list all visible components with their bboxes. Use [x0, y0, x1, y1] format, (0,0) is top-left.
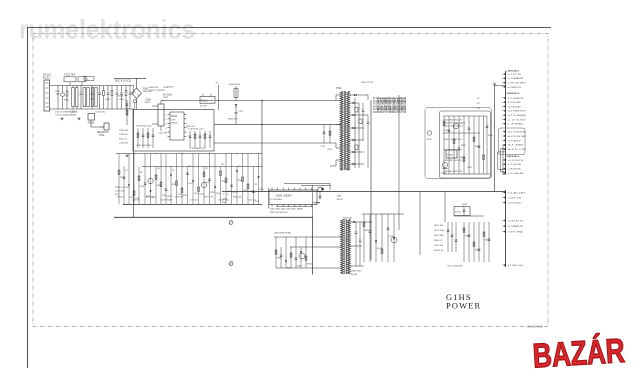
wire under IC801 [276, 205, 313, 207]
svg-text:DG: DG [85, 78, 89, 80]
pin CN604-5 [503, 148, 506, 150]
pin CN603-3 [503, 123, 506, 125]
svg-text:P.P: P.P [477, 108, 481, 110]
svg-text:T601 6174Z: T601 6174Z [361, 82, 373, 84]
optocoupler PC601 [446, 150, 457, 158]
svg-text:R651 10K: R651 10K [434, 225, 444, 227]
capacitor C105 [99, 86, 101, 93]
resistor R102 [103, 86, 105, 91]
svg-text:e-3 5 GND-B: e-3 5 GND-B [508, 202, 522, 204]
bus primary return [114, 216, 313, 218]
posistor TH101 degauss [88, 114, 95, 121]
line filter L101 [72, 88, 75, 107]
pin CN604-2 [503, 135, 506, 137]
resistor R664 [483, 222, 485, 262]
capacitor C650 [447, 222, 449, 252]
electrolytic capacitor C106 [158, 104, 164, 126]
svg-text:IC801 LM2576: IC801 LM2576 [276, 194, 292, 197]
svg-text:R621 39K C621 473: R621 39K C621 473 [444, 120, 463, 122]
svg-text:rumelektronics: rumelektronics [19, 15, 195, 45]
wire primary ground drop [133, 109, 135, 217]
capacitor C623 [458, 116, 460, 174]
capacitor C127 [231, 154, 233, 205]
bridge rectifier D101 diamond [132, 88, 142, 98]
svg-text:CN601 EAY-1: CN601 EAY-1 [507, 70, 521, 73]
wire feedback top [443, 115, 487, 117]
capacitor C629 [486, 116, 488, 174]
svg-text:R652 4.7: R652 4.7 [434, 240, 443, 242]
svg-text:TH101: TH101 [88, 122, 96, 124]
connector CN601 spine [505, 71, 507, 175]
svg-text:ZD102: ZD102 [167, 196, 173, 198]
svg-text:F101 T4A: F101 T4A [65, 74, 76, 77]
pin CN601-2 [503, 77, 506, 79]
feedback group box outer [425, 108, 492, 179]
ground AC earth [61, 117, 63, 118]
capacitor C665 [488, 222, 490, 262]
svg-text:D106: D106 [140, 186, 145, 188]
svg-text:R137 4.7K: R137 4.7K [204, 197, 214, 199]
svg-text:L104 DGC: L104 DGC [95, 112, 106, 114]
resistor R611 [363, 214, 365, 262]
resistor C124 [176, 154, 178, 205]
capacitor C110 [129, 86, 131, 93]
wire standby aux [301, 184, 331, 186]
capacitor R123 [144, 154, 146, 205]
svg-text:C123: C123 [162, 195, 167, 197]
pin CN702-2 [503, 225, 506, 227]
svg-text:ZD651 9V: ZD651 9V [434, 250, 444, 252]
svg-text:f-3 P-GND: f-3 P-GND [508, 231, 524, 233]
svg-text:d-3 GND-P: d-3 GND-P [508, 140, 522, 142]
svg-text:C111: C111 [239, 111, 245, 113]
resistor R642 [381, 214, 383, 262]
svg-text:275: 275 [254, 184, 257, 186]
svg-text:d-2 3.3V-SB: d-2 3.3V-SB [508, 136, 527, 138]
svg-text:R136 10K: R136 10K [175, 197, 184, 199]
capacitor C602 [367, 121, 370, 123]
bus secondary ground [222, 191, 506, 193]
svg-text:T801: T801 [337, 196, 343, 198]
pin CN605-1 [503, 159, 506, 161]
pin CN701-2 [503, 197, 506, 199]
svg-text:e-1 P-ON 2.5V: e-1 P-ON 2.5V [508, 160, 524, 162]
diode D109 [258, 154, 260, 205]
transformer T801 secondary winding [347, 219, 350, 274]
ground symbol standby 1 [229, 221, 233, 225]
vertical stub IC801 left [268, 188, 270, 209]
BAZAR logo [532, 332, 626, 376]
svg-text:C107: C107 [105, 99, 111, 101]
diode D603 [350, 114, 368, 116]
wire bridge feed [136, 78, 138, 88]
svg-text:R626 1.2K C625 47u: R626 1.2K C625 47u [444, 139, 463, 141]
svg-text:DGC 9-10 COIL: DGC 9-10 COIL [115, 81, 132, 83]
IC101 power hybrid box [133, 110, 214, 152]
wire feedback mid [443, 132, 480, 134]
capacitor C107 [107, 86, 109, 93]
svg-text:Q602 KSC945 R627: Q602 KSC945 R627 [444, 150, 463, 152]
ground IC left [126, 154, 128, 155]
tab circle P601 [427, 131, 431, 135]
svg-text:b-1 24VNOR: b-1 24VNOR [508, 98, 524, 100]
svg-text:R116 56K: R116 56K [119, 130, 129, 132]
wire rail primary lower [123, 203, 262, 205]
pin CN701-3 [503, 202, 506, 204]
svg-text:C652 104: C652 104 [434, 245, 444, 247]
vertical connector feed bus [494, 84, 496, 192]
svg-text:D109: D109 [259, 189, 264, 191]
svg-text:C807 R806 ZD801: C807 R806 ZD801 [274, 233, 292, 235]
pin CN601-3 [503, 82, 506, 84]
svg-text:AC IN: AC IN [43, 76, 50, 79]
sheet border frame [27, 27, 551, 29]
transformer T601 primary winding [340, 91, 343, 170]
svg-text:ZD602 B2 R629 6.8K: ZD602 B2 R629 6.8K [444, 171, 464, 173]
svg-text:MC-059A 059B: MC-059A 059B [527, 325, 543, 328]
svg-text:D110 1N4148: D110 1N4148 [161, 200, 173, 202]
wire loop nest to connector [503, 146, 506, 175]
svg-text:T601: T601 [336, 87, 342, 90]
svg-text:C118 47u: C118 47u [119, 134, 129, 136]
svg-text:POWER: POWER [446, 302, 481, 311]
diode Q641 [393, 214, 395, 262]
capacitor R128 [209, 154, 211, 205]
diode R122 [128, 154, 130, 205]
wire lower right rail [362, 213, 404, 215]
capacitor C601 [362, 109, 365, 111]
vertical drop to CN701 [419, 192, 421, 256]
resistor R103 [111, 86, 113, 91]
diode D601 [354, 94, 356, 96]
svg-text:5V-SB: 5V-SB [351, 274, 358, 276]
svg-text:a-2 HEATER: a-2 HEATER [508, 77, 524, 80]
transistor Q103 drive [201, 182, 206, 187]
svg-text:107: 107 [125, 170, 128, 172]
resistor C128 [247, 154, 249, 205]
wire drain to transformer [214, 123, 341, 125]
pin CN603-1 [503, 114, 506, 116]
svg-text:5V SW REG: 5V SW REG [270, 199, 282, 201]
svg-text:SB-TR: SB-TR [337, 199, 344, 201]
svg-text:212: 212 [205, 168, 208, 170]
capacitor C641 [369, 214, 371, 262]
svg-text:C133 102: C133 102 [190, 200, 198, 202]
svg-text:CN602 EAY-4: CN602 EAY-4 [507, 92, 521, 95]
svg-text:C651 470u: C651 470u [434, 230, 445, 232]
capacitor C104 [91, 86, 93, 93]
svg-text:R138 100: R138 100 [233, 197, 241, 199]
pin CN703-1 [503, 264, 506, 266]
IC801 standby regulator box [269, 190, 317, 205]
capacitor D107 [187, 167, 189, 205]
svg-text:e-2 45V 71-4B: e-2 45V 71-4B [508, 197, 522, 199]
svg-text:R135 562: R135 562 [146, 197, 154, 199]
resistor D108 [225, 154, 227, 205]
degauss coil plug P901 [104, 123, 109, 130]
svg-text:a-4 GND-B 2B: a-4 GND-B 2B [508, 87, 522, 89]
pin CN701-1 [503, 192, 506, 194]
diode Q102 [150, 154, 152, 205]
svg-text:CY101 222M 250VAC: CY101 222M 250VAC [55, 114, 77, 117]
capacitor C109 [121, 86, 123, 93]
transistor Q641 [391, 237, 397, 243]
svg-text:D102 C113 R111: D102 C113 R111 [149, 90, 166, 92]
pin CN602-3 [503, 106, 506, 108]
svg-text:e-3 ACDET-B5: e-3 ACDET-B5 [508, 168, 522, 171]
wire AC neutral rail [50, 108, 134, 110]
resistor R101 [66, 86, 68, 92]
pin CN605-2 [503, 163, 506, 165]
capacitor R132 [253, 167, 255, 205]
fuse F101 [64, 77, 76, 82]
diode D604 [350, 127, 364, 129]
svg-text:R108 D105: R108 D105 [229, 84, 241, 86]
diode D605 [350, 139, 364, 141]
capacitor C604 box [355, 145, 358, 150]
resistor R127 [198, 154, 200, 205]
svg-text:Q103: Q103 [205, 182, 210, 184]
line filter L103 [91, 88, 93, 107]
capacitor C806 [295, 237, 297, 268]
svg-text:Q642: Q642 [462, 204, 468, 206]
svg-text:D651 SB5: D651 SB5 [434, 235, 444, 237]
junction dots primary rails [133, 153, 134, 154]
svg-text:C801 330u L801 100u D801 SB3: C801 330u L801 100u D801 SB360 [270, 209, 304, 211]
transformer primary stubs [336, 94, 340, 96]
svg-text:b-4 9VNOR-P: b-4 9VNOR-P [508, 111, 527, 113]
capacitor C651 [451, 222, 453, 252]
svg-text:c-2 3.5V: c-2 3.5V [508, 119, 528, 121]
svg-text:C119 102: C119 102 [119, 143, 129, 145]
capacitor C103 [80, 86, 82, 93]
svg-text:b-2 15VOLA-P: b-2 15VOLA-P [508, 101, 522, 104]
svg-text:e-4 GND-SB: e-4 GND-SB [508, 173, 524, 175]
diode D802 [285, 237, 287, 268]
svg-text:C116 R114 C117: C116 R114 C117 [188, 128, 204, 130]
capacitor C642 [387, 214, 389, 262]
svg-text:C121: C121 [125, 187, 130, 189]
pin CN601-4 [503, 86, 506, 88]
svg-text:d-5 P-ON: d-5 P-ON [508, 149, 527, 151]
wire stub under Q802 [313, 201, 320, 203]
wire B+ to transformer [215, 100, 341, 102]
pin CN604-3 [503, 139, 506, 141]
svg-text:CN605 EAY-2: CN605 EAY-2 [507, 155, 521, 158]
capacitor C663 [478, 222, 480, 262]
wire standby mid [290, 246, 341, 248]
wire neutral to bridge [132, 92, 134, 94]
svg-text:R124: R124 [157, 185, 162, 187]
wire secondary feed stub [367, 95, 369, 100]
svg-text:RL101: RL101 [201, 100, 208, 102]
resistor R624 [463, 116, 465, 174]
svg-text:6-1 HS: 6-1 HS [200, 106, 207, 108]
pin CN702-3 [503, 231, 506, 233]
transistor Q601 [453, 123, 459, 129]
label degauss net [114, 77, 146, 79]
diode R125 [170, 167, 172, 205]
feedback group box [440, 111, 491, 178]
secondary rail 1 [354, 98, 356, 168]
transistor Q801 standby switch [299, 253, 305, 259]
svg-text:R112 R113 C115: R112 R113 C115 [136, 125, 152, 127]
junction X mark [493, 83, 496, 86]
secondary rail 2 [358, 103, 360, 168]
wire under IC641 [454, 215, 484, 217]
wire route standby top [284, 183, 330, 185]
svg-text:C120 222: C120 222 [158, 133, 168, 135]
connector SC101 AC input [44, 80, 50, 111]
svg-text:R628 33K C626 223: R628 33K C626 223 [444, 160, 463, 162]
svg-text:b-3 15VOLA-F: b-3 15VOLA-F [508, 105, 522, 108]
wire rail primary upper [116, 153, 262, 155]
shunt regulator IC601 KA431 [442, 162, 447, 167]
svg-text:C106: C106 [145, 98, 151, 101]
resistor network in IC box [137, 128, 139, 148]
resistor R124 [155, 167, 157, 205]
svg-text:191: 191 [188, 166, 191, 168]
transformer T801 core [344, 219, 346, 274]
pin CN605-4 [503, 172, 506, 174]
svg-text:f-2 STAND-BY: f-2 STAND-BY [508, 225, 524, 228]
wire aux winding [214, 142, 336, 144]
transformer T601 core [343, 91, 345, 170]
vertical secondary main rail [370, 100, 372, 260]
snubber capacitor C111 [235, 112, 238, 114]
svg-text:f-1 ST-BY 5V: f-1 ST-BY 5V [508, 220, 524, 222]
svg-text:R118 47K: R118 47K [186, 126, 195, 128]
capacitor C627 [478, 116, 480, 174]
svg-text:254: 254 [238, 166, 241, 168]
capacitor C112 hanging [323, 124, 325, 143]
capacitor C809 [359, 239, 362, 241]
svg-text:R101: R101 [64, 99, 70, 101]
capacitor C101 [57, 86, 59, 94]
capacitor C661 [468, 222, 470, 262]
diode C125 [192, 154, 194, 205]
resistor R129 [220, 167, 222, 205]
varistor VA101 [62, 86, 64, 93]
pin CN604-4 [503, 144, 506, 146]
wire rail primary mid [142, 166, 262, 168]
wire standby secondary mid [350, 245, 362, 247]
vertical feedback wire [261, 101, 263, 192]
capacitor C652 [455, 222, 457, 252]
capacitor ZD102 [165, 154, 167, 205]
svg-text:R109 47K: R109 47K [228, 119, 238, 121]
diode D602 [350, 102, 359, 104]
svg-text:a-1 PT-1B: a-1 PT-1B [508, 74, 522, 76]
svg-text:149: 149 [157, 168, 160, 170]
snubber diode D105 [235, 86, 237, 101]
svg-text:R107: R107 [163, 97, 169, 99]
diode C126 [214, 154, 216, 205]
capacitor C808 [355, 231, 358, 233]
svg-text:C803: C803 [222, 199, 228, 201]
svg-text:R622 10K IC601 KA431: R622 10K IC601 KA431 [444, 122, 466, 125]
resistor R804 [305, 237, 307, 268]
junction B+ [261, 100, 262, 101]
svg-text:F6654: F6654 [171, 123, 178, 125]
svg-text:R117 2.2: R117 2.2 [119, 138, 128, 140]
wire standby secondary return [350, 265, 364, 267]
svg-text:BAZÁR: BAZÁR [532, 332, 626, 376]
svg-text:DEGAUSS: DEGAUSS [97, 131, 109, 134]
wire feedback lower [443, 173, 490, 175]
svg-text:R128: R128 [210, 192, 215, 194]
svg-text:B+ 310V: B+ 310V [163, 94, 172, 96]
diode D803 [350, 221, 371, 223]
IC101 inner control block [170, 112, 184, 140]
svg-text:C127: C127 [232, 192, 237, 194]
svg-text:R110: R110 [328, 149, 332, 151]
svg-text:d-1 5.3VGND: d-1 5.3VGND [508, 132, 527, 134]
capacitor C121 [123, 167, 125, 205]
svg-text:Q802: Q802 [316, 203, 321, 205]
svg-text:d-4 GND: d-4 GND [508, 145, 525, 147]
capacitor C625 [468, 116, 470, 174]
resistor D106 [138, 167, 140, 205]
svg-text:R623 2.4K C622 104: R623 2.4K C622 104 [444, 126, 464, 128]
vertical wire startup [218, 85, 220, 110]
resistor R622 [453, 116, 455, 174]
transformer T601 secondary winding [347, 91, 350, 170]
resistor R662 [473, 222, 475, 262]
svg-text:C126: C126 [216, 193, 221, 195]
resistor Q103 [203, 167, 205, 205]
capacitor C605 box [359, 119, 362, 124]
resistor C123 [160, 154, 162, 205]
svg-text:R807 8.2K: R807 8.2K [343, 218, 353, 220]
pin CN602-4 [503, 110, 506, 112]
components right of control block [189, 131, 191, 148]
diode D641 [375, 214, 377, 262]
svg-text:R801 1K C802 104: R801 1K C802 104 [270, 212, 289, 214]
svg-text:R134 1K: R134 1K [117, 197, 125, 199]
diode D607 [350, 163, 364, 165]
wire bus to pin [495, 85, 506, 87]
resistor R126 [181, 154, 183, 205]
line filter L102 [83, 88, 86, 107]
svg-text:46 R611 0.47 ZD611 6.2V 1W: 46 R611 0.47 ZD611 6.2V 1W [373, 111, 407, 114]
bracket group box [499, 128, 526, 155]
svg-text:Q101 2SK2545: Q101 2SK2545 [136, 145, 152, 147]
svg-text:C131 472: C131 472 [115, 190, 125, 192]
regulator IC641 box [454, 207, 470, 216]
resistor R110 hanging [329, 124, 331, 143]
svg-text:C654 C655 R656: C654 C655 R656 [447, 266, 463, 268]
pin CN602-2 [503, 101, 506, 103]
svg-text:R106 2W: R106 2W [149, 87, 159, 89]
wire standby ground rail [276, 267, 341, 269]
svg-text:170: 170 [172, 170, 175, 172]
svg-text:c-1 5.3V(B): c-1 5.3V(B) [508, 115, 527, 117]
svg-text:C125: C125 [194, 193, 199, 195]
svg-text:450V: 450V [145, 102, 151, 104]
svg-text:D804 C810: D804 C810 [351, 271, 362, 273]
capacitor C805 [280, 247, 282, 268]
label box degauss [84, 76, 94, 80]
wire standby feed [274, 236, 341, 238]
transistor Q802 cluster [318, 188, 322, 192]
tick texture secondary list [377, 98, 379, 104]
wire secondary top [350, 94, 368, 96]
svg-text:128: 128 [140, 172, 143, 174]
svg-text:R115: R115 [118, 96, 124, 98]
svg-text:C109: C109 [119, 99, 125, 101]
svg-text:C104: C104 [89, 99, 95, 101]
